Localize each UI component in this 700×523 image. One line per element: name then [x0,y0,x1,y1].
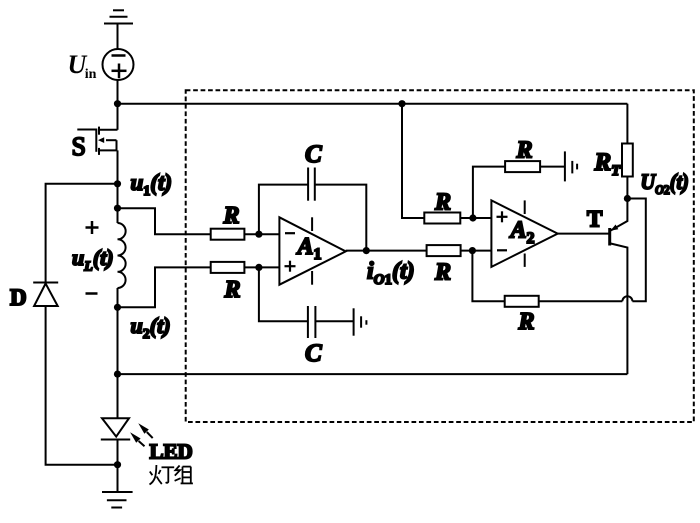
node A1 minus junction [255,231,262,238]
wire diode to bottom-left corner [46,306,118,465]
svg-text:iO1(t): iO1(t) [367,258,415,288]
op-amp A1 [279,217,345,284]
label minus (inductor) [86,292,98,295]
svg-text:Uin: Uin [68,50,97,82]
wire coil bottom to node C [117,288,119,374]
wire A1 output [346,250,427,252]
svg-text:LED: LED [150,440,193,464]
svg-text:R: R [223,203,240,229]
resistor R3 (A1 out to A2 minus) [427,245,492,256]
wire jog to resistor R1 [118,208,211,234]
svg-text:R: R [518,309,535,335]
svg-text:R: R [434,190,451,216]
label A2 minus input [497,249,507,251]
wire feedback right vertical [627,199,645,302]
label A1 minus input [285,232,295,234]
wire top horizontal node A to RT drop [118,103,628,105]
minus sign inside source [112,54,126,57]
node u2 [114,304,121,311]
label plus (inductor) [86,221,99,234]
plus sign inside source [112,64,127,79]
svg-text:R: R [434,259,451,285]
svg-text:u1(t): u1(t) [131,170,173,199]
wire u1 to diode branch (left) [46,184,118,283]
wire MOSFET source to node u1 [117,150,119,223]
node C junction (bottom left) [114,371,121,378]
LED arrow 1 [138,423,152,438]
LED [101,374,130,465]
label A1 plus input [285,261,296,272]
LED arrow 2 [130,432,144,446]
node A1 output junction [363,247,370,254]
ground (R5, right-facing) [565,151,577,181]
capacitor C2 to ground [259,267,354,338]
svg-text:RT: RT [594,149,622,179]
wire hop over collector [622,296,632,301]
wire feedback left of hop [539,300,623,302]
resistor R4 (to A2 plus) [424,213,491,224]
wire node A to R4 drop [402,104,424,218]
op-amp A2 [491,200,557,267]
wire jog to resistor R2 [118,267,211,307]
dashed control box [186,90,694,422]
node D junction (below LED) [114,461,121,468]
node below u1 [114,205,121,212]
wire long bottom [118,373,628,375]
voltage source U_in [103,49,134,80]
wire ground to source [117,24,119,50]
resistor R6 (feedback) [472,251,538,307]
node A2 plus junction [469,214,476,221]
diode D [33,283,58,307]
svg-text:D: D [10,285,27,310]
svg-text:S: S [72,132,86,161]
wire A2 output to T base [558,233,610,235]
ground (bottom) [102,465,133,508]
svg-text:C: C [305,340,322,367]
svg-text:C: C [305,141,322,168]
node RT/emitter junction [624,195,631,202]
transistor T [610,199,628,375]
node on top wire [398,100,405,107]
MOSFET S [77,127,117,155]
node A1 plus junction [255,264,262,271]
node A junction [114,100,121,107]
svg-text:R: R [224,277,241,303]
label A2 plus input [497,211,508,222]
ground (top) [104,10,133,23]
resistor R5 (to ground) [505,161,565,172]
ground (C2, right-facing) [354,308,367,335]
svg-text:UO2(t): UO2(t) [641,169,689,197]
label CJK lamp group (drawn strokes) [150,465,193,485]
node A2 minus junction [469,247,476,254]
svg-text:u2(t): u2(t) [131,313,171,342]
wire A2 plus to R5 [473,167,505,218]
resistor R2 (A1 non-inverting input) [211,262,280,273]
wire source to node A [117,80,119,130]
svg-text:T: T [587,206,602,231]
svg-text:R: R [516,138,533,164]
node u1 [114,180,121,187]
capacitor C1 feedback [259,168,366,251]
svg-text:uL(t): uL(t) [72,245,114,275]
resistor R1 (A1 inverting input) [211,229,280,240]
inductor L [118,223,126,288]
resistor RT [622,104,633,199]
